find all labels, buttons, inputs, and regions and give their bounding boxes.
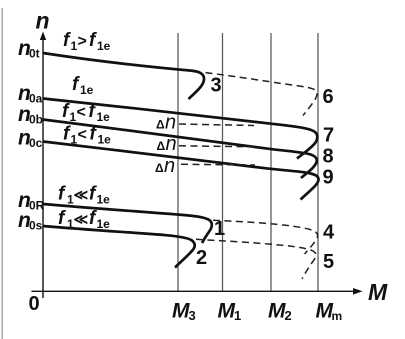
svg-text:Δ: Δ — [155, 161, 164, 175]
grid Mm — [317, 33, 319, 291]
svg-text:1e: 1e — [97, 39, 111, 53]
svg-text:1e: 1e — [98, 133, 112, 147]
curve 5 dashed — [196, 239, 316, 279]
svg-text:3: 3 — [189, 308, 196, 323]
svg-text:8: 8 — [323, 146, 334, 168]
curve 9 solid — [43, 142, 319, 200]
grid M2 — [270, 33, 272, 291]
curve 2 solid — [43, 226, 195, 268]
svg-text:1: 1 — [71, 133, 78, 147]
page border line left — [1, 8, 3, 339]
svg-text:1: 1 — [70, 110, 77, 124]
curve 3 solid — [43, 53, 204, 99]
svg-text:2: 2 — [196, 247, 207, 269]
svg-text:Δ: Δ — [157, 139, 166, 153]
svg-text:0t: 0t — [29, 47, 40, 61]
svg-text:1: 1 — [214, 218, 225, 240]
svg-text:1e: 1e — [97, 110, 111, 124]
x axis — [32, 290, 355, 292]
svg-text:n: n — [165, 112, 176, 134]
curve 7 solid — [43, 99, 317, 159]
svg-text:7: 7 — [323, 125, 334, 147]
svg-text:6: 6 — [323, 86, 334, 108]
svg-text:3: 3 — [211, 75, 222, 97]
svg-text:1e: 1e — [80, 83, 94, 97]
svg-text:0s: 0s — [29, 219, 43, 233]
svg-text:1e: 1e — [97, 193, 111, 207]
grid M1 — [222, 33, 224, 291]
svg-text:0: 0 — [29, 293, 40, 315]
svg-text:0b: 0b — [29, 113, 43, 127]
curve 1 solid — [43, 204, 212, 243]
svg-text:1: 1 — [234, 308, 241, 323]
svg-text:1e: 1e — [97, 217, 111, 231]
svg-text:<: < — [77, 104, 86, 121]
svg-text:M: M — [368, 279, 388, 305]
svg-text:M: M — [268, 300, 286, 323]
grid M3 — [177, 33, 179, 291]
svg-text:≪: ≪ — [74, 187, 89, 203]
dashed dn line 1 — [179, 124, 254, 126]
svg-text:1: 1 — [71, 39, 78, 53]
svg-text:2: 2 — [285, 308, 292, 323]
y axis — [42, 38, 44, 298]
svg-text:Δ: Δ — [156, 118, 165, 132]
svg-text:<: < — [78, 127, 87, 144]
svg-text:0R: 0R — [29, 199, 45, 213]
svg-text:M: M — [172, 300, 190, 323]
svg-text:0a: 0a — [29, 92, 43, 106]
svg-text:4: 4 — [323, 221, 335, 243]
dashed dn line 3 — [181, 163, 255, 166]
svg-text:0c: 0c — [29, 136, 43, 150]
curve 8 solid — [43, 120, 317, 179]
dashed dn line 2 — [179, 146, 254, 147]
svg-text:≪: ≪ — [74, 211, 89, 227]
svg-text:n: n — [36, 8, 50, 34]
svg-text:m: m — [332, 309, 343, 323]
svg-text:>: > — [78, 33, 87, 50]
svg-text:5: 5 — [323, 251, 334, 273]
curve 4 dashed — [213, 220, 318, 254]
curve 6 dashed — [206, 73, 318, 116]
svg-text:n: n — [166, 133, 177, 155]
svg-text:M: M — [218, 300, 236, 323]
svg-text:9: 9 — [323, 167, 334, 189]
svg-text:n: n — [164, 155, 175, 177]
